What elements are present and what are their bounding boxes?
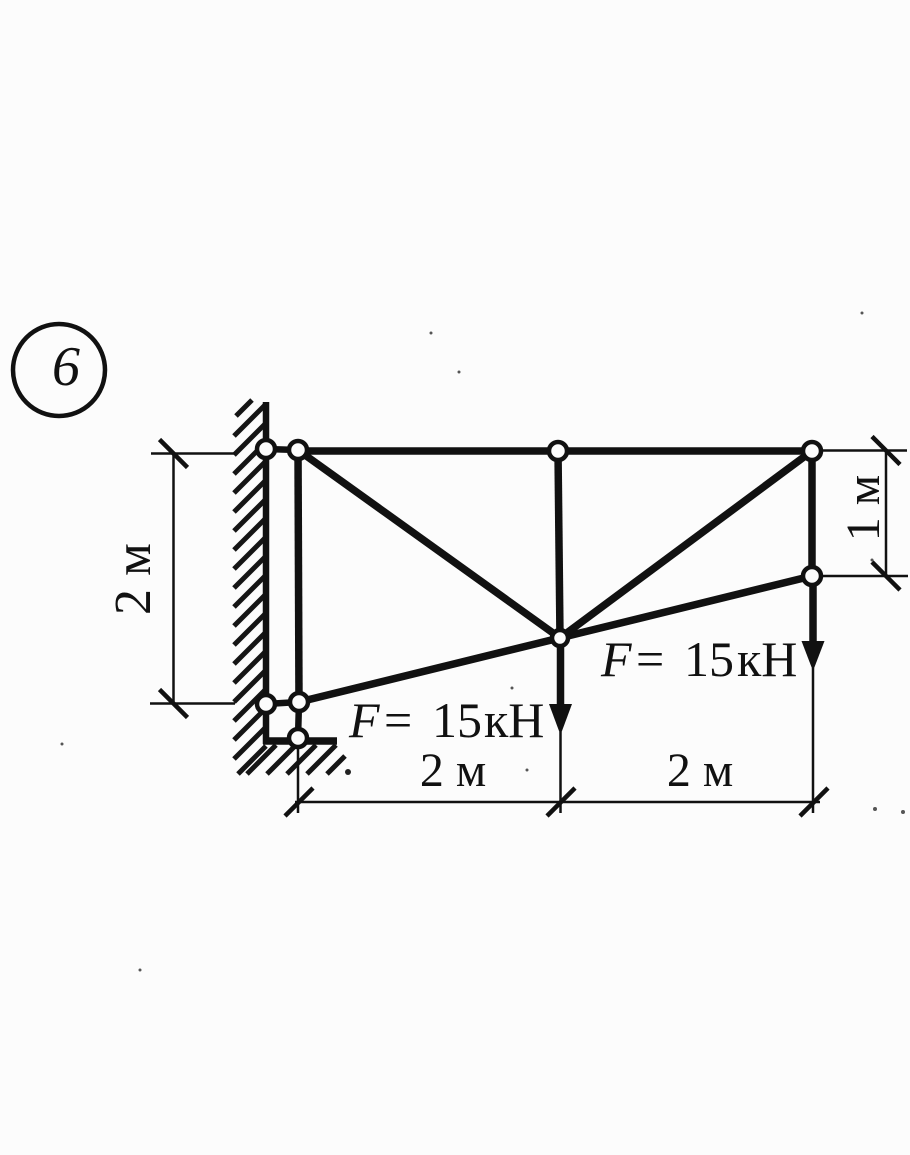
- support link: bottom-left node to ground pin: [298, 702, 299, 738]
- wall edge line: [263, 402, 270, 744]
- member: right vertical: [808, 451, 816, 576]
- node: right lower: [803, 567, 821, 585]
- dimension tick: bottom right: [800, 788, 828, 816]
- svg-text:6: 6: [52, 336, 80, 398]
- dimension extension line: below middle force arrow: [559, 732, 562, 813]
- dimension tick: right bottom: [872, 562, 900, 590]
- dimension extension line: below right force arrow: [812, 668, 815, 813]
- ground hatching: [247, 745, 345, 774]
- node: ground pin: [289, 729, 307, 747]
- member: bottom chord: [299, 576, 812, 702]
- ground line of lower support: [263, 737, 337, 745]
- node: top-left: [289, 441, 307, 459]
- dimension extension line: left bottom: [150, 702, 235, 705]
- node: wall pin bottom: [257, 695, 275, 713]
- problem number circle: [13, 324, 105, 416]
- member: middle vertical: [558, 451, 560, 638]
- node: top-middle: [549, 442, 567, 460]
- dimension line: bottom horizontal: [295, 801, 820, 804]
- dimension tick: bottom left: [285, 788, 313, 816]
- wall hatching: [234, 400, 266, 774]
- svg-text:2 м: 2 м: [420, 744, 486, 797]
- svg-text:2 м: 2 м: [667, 744, 733, 797]
- support link: wall pin to bottom-left node: [266, 702, 299, 704]
- node: wall pin top: [257, 440, 275, 458]
- speck dot: [345, 769, 351, 775]
- dimension tick: bottom middle: [547, 788, 575, 816]
- svg-text:F=15кН: F=15кН: [348, 692, 544, 748]
- member: top chord: [298, 447, 812, 455]
- member: diagonal from top-left node to middle node: [298, 450, 560, 638]
- dimension tick: left top: [160, 440, 188, 468]
- dimension tick: left bottom: [160, 690, 188, 718]
- member: left vertical: [298, 450, 299, 702]
- node: bottom-left: [290, 693, 308, 711]
- dimension line: right vertical 1 m: [885, 451, 888, 577]
- force F1 arrow at middle node: [557, 642, 565, 708]
- dimension extension line: right top: [821, 449, 907, 452]
- paper specks: [61, 312, 906, 972]
- dimension extension line: left top: [151, 452, 235, 455]
- svg-text:1 м: 1 м: [837, 475, 890, 541]
- dimension line: left vertical 2 m: [172, 454, 175, 704]
- dimension extension line: right bottom: [821, 575, 908, 578]
- svg-text:F=15кН: F=15кН: [600, 631, 797, 687]
- force F2 arrow at right lower node: [809, 584, 817, 644]
- member: diagonal from middle node to top-right node: [560, 451, 812, 638]
- node: top-right: [803, 442, 821, 460]
- dimension tick: right top: [872, 437, 900, 465]
- node: middle: [552, 630, 568, 646]
- dimension extension line: below ground pin: [297, 748, 300, 813]
- support link: wall pin to top-left node: [266, 449, 298, 450]
- svg-text:2 м: 2 м: [105, 543, 162, 615]
